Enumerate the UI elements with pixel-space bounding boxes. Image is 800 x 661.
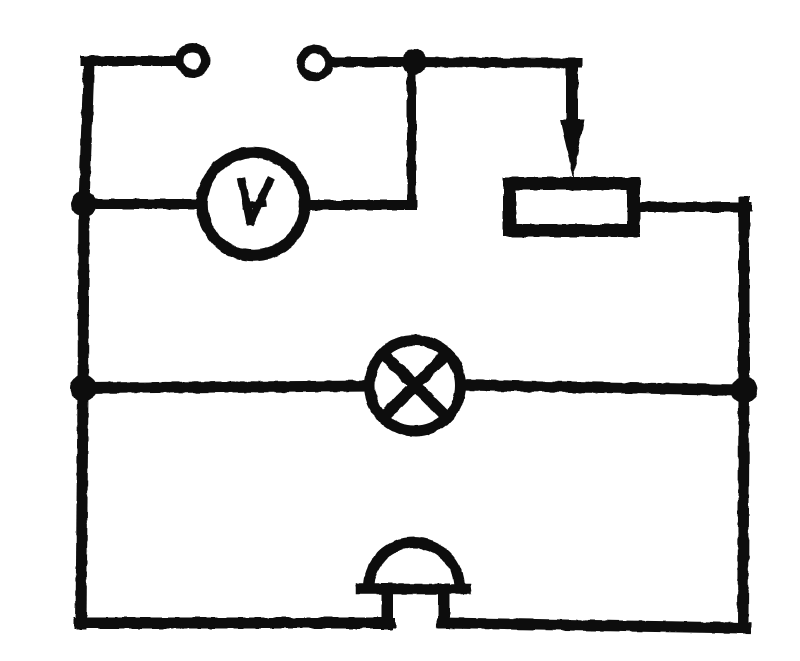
wire: right rail upper segment — [739, 202, 750, 390]
wire: terminal 2 to junction — [332, 57, 418, 67]
wire: top-left horizontal to terminal — [85, 56, 178, 66]
bell: base line — [361, 584, 466, 595]
terminal: open circle left — [180, 48, 206, 74]
rheostat: rectangle body — [510, 184, 634, 231]
wire: bottom run right of bell — [442, 623, 746, 628]
junction: right rail lamp node — [731, 377, 758, 404]
bell: right leg — [438, 589, 450, 623]
wire: right rail lower segment — [743, 390, 744, 628]
wire: voltmeter left lead — [84, 199, 200, 209]
terminal: open circle right — [301, 49, 329, 77]
lamp: X diagonal 1 — [383, 354, 447, 418]
wire: rheostat right lead — [640, 202, 747, 212]
wire: top run from junction to corner — [414, 62, 577, 63]
voltmeter: glyph (inverted A) left stroke — [242, 182, 250, 221]
lamp: circle body — [370, 340, 461, 431]
wire: left rail bottom segment — [81, 388, 83, 624]
voltmeter: glyph crossbar — [246, 204, 263, 206]
junction: top node — [402, 49, 427, 74]
junction: left rail upper node — [71, 191, 97, 217]
wire: vertical from top junction down to voltmeter lead — [407, 62, 416, 205]
bell: left leg — [381, 589, 393, 624]
wire: bottom run left of bell — [79, 618, 390, 629]
wire: middle run left of lamp — [83, 386, 372, 388]
junction: left rail lamp node — [70, 375, 97, 402]
wire: left rail middle segment — [83, 204, 84, 388]
wire: down to rheostat arrow shaft — [566, 59, 578, 126]
wire: voltmeter right lead — [308, 200, 412, 210]
wire: left rail top segment — [84, 62, 89, 204]
arrow: rheostat slider arrowhead — [560, 119, 584, 179]
bell: dome semicircle — [369, 543, 460, 589]
wire: middle run right of lamp — [458, 385, 744, 390]
voltmeter: circle body — [202, 153, 305, 256]
voltmeter: glyph right stroke — [251, 181, 270, 221]
lamp: X diagonal 2 — [383, 354, 447, 418]
